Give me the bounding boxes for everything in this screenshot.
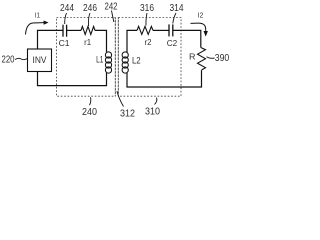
svg-text:L2: L2 <box>132 55 141 65</box>
label 246 with leader <box>83 3 97 26</box>
inductor L2 coil <box>122 52 141 73</box>
dashed box 310 (receive resonator) <box>118 18 181 97</box>
svg-text:310: 310 <box>145 107 160 118</box>
wire R bottom to L2 bottom (right loop bottom) <box>127 70 202 87</box>
svg-text:246: 246 <box>83 3 97 14</box>
svg-text:C1: C1 <box>59 38 70 48</box>
svg-text:316: 316 <box>140 3 154 14</box>
svg-text:I1: I1 <box>35 13 40 20</box>
label 220 with leader <box>2 54 28 65</box>
svg-text:R: R <box>189 52 196 62</box>
wire C2 to R corner <box>173 30 201 47</box>
label 314 with leader <box>170 3 184 24</box>
wire r2 to C2 <box>153 29 169 31</box>
label 310 with leader <box>145 98 160 118</box>
capacitor C1 <box>59 25 70 48</box>
resistor r1 <box>81 26 95 47</box>
resistor r2 <box>137 26 153 47</box>
label 242 with leader <box>105 2 118 23</box>
svg-text:INV: INV <box>33 55 48 65</box>
current arrow I1 <box>26 13 49 35</box>
capacitor C2 <box>167 24 178 47</box>
label 316 with leader <box>140 3 154 26</box>
inverter U1 INV box <box>28 49 52 72</box>
svg-text:314: 314 <box>170 3 184 14</box>
dashed box 240 (transmit resonator) <box>57 18 116 97</box>
svg-text:I2: I2 <box>198 13 204 20</box>
label 312 with leader <box>117 91 135 120</box>
wire INV top to C1 (left loop top) <box>38 30 64 49</box>
wire L1 bottom to INV bottom (left loop bottom) <box>38 72 107 86</box>
svg-text:C2: C2 <box>167 38 178 48</box>
svg-text:390: 390 <box>215 53 230 64</box>
resistor R (load) <box>189 48 205 71</box>
svg-text:r1: r1 <box>84 38 91 47</box>
node boundary 312 dashed separation lines <box>115 18 118 97</box>
label 244 with leader <box>60 3 74 24</box>
svg-text:220: 220 <box>2 54 15 65</box>
wire r1 to L1 corner <box>95 30 107 52</box>
svg-text:L1: L1 <box>96 55 103 65</box>
svg-text:240: 240 <box>82 107 97 118</box>
svg-text:312: 312 <box>120 109 135 120</box>
wire L2 top to r2 (right loop top) <box>127 30 137 52</box>
inductor L1 coil <box>96 52 111 73</box>
current arrow I2 <box>191 13 208 37</box>
wire C1 to r1 <box>67 29 81 31</box>
svg-text:244: 244 <box>60 3 74 14</box>
label 390 with leader <box>207 53 230 64</box>
svg-text:r2: r2 <box>145 38 152 47</box>
label 240 with leader <box>82 97 97 118</box>
